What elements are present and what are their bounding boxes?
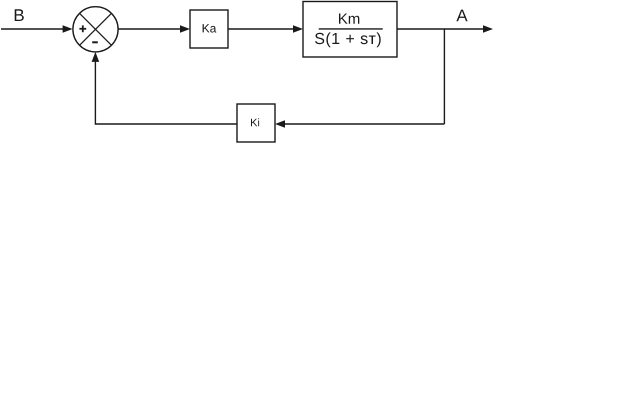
wire Ka to motor block [228,25,303,33]
node B label [15,9,24,21]
wire feedback to Ki [275,120,444,128]
wire motor block to output A [397,25,493,33]
junction node at A branch [443,29,445,124]
wire Ki to summing junction [92,52,237,125]
wire B input to summing junction [1,25,73,33]
wire summing junction to Ka [118,25,190,33]
plus sign [79,25,86,32]
minus sign [92,41,98,43]
summing junction U1 [73,7,118,52]
block Ka [190,10,228,48]
block Ki [237,104,275,142]
block Km/S(1+st) [303,2,397,58]
node A label [456,10,467,22]
